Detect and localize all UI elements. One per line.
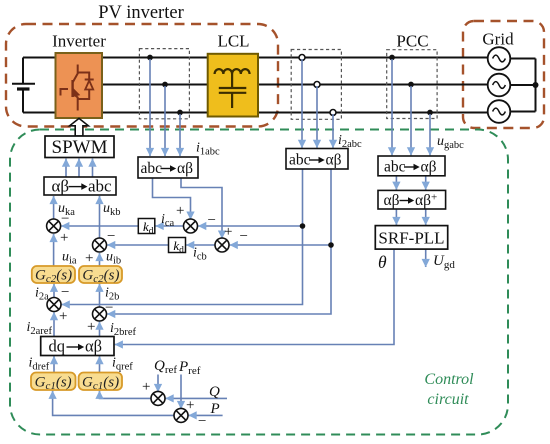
svg-text:uia: uia <box>62 250 77 267</box>
svg-text:θ: θ <box>378 252 387 272</box>
svg-text:+: + <box>186 398 194 414</box>
svg-text:icb: icb <box>193 246 207 263</box>
tap dot c3 <box>427 110 433 116</box>
svg-text:uib: uib <box>106 250 121 267</box>
block: abc to alphabeta (2) <box>286 149 348 170</box>
block: SPWM <box>45 136 114 158</box>
block: kd2 <box>169 238 186 256</box>
wire: alphabeta-abc to SPWM (3 arrows) <box>65 159 67 177</box>
svg-text:αβ: αβ <box>421 158 437 175</box>
wire: Qref into sum E <box>157 375 159 393</box>
wire: theta from SRF-PLL to dq-ab <box>115 249 394 345</box>
svg-text:i1abc: i1abc <box>196 141 220 158</box>
block: Gc1(s) d-axis <box>31 373 76 393</box>
Control circuit enclosure (green dashed rounded box) <box>10 130 508 435</box>
svg-text:Pref: Pref <box>178 359 201 377</box>
AC source G1 <box>488 47 511 70</box>
summing junction F (P) <box>174 408 188 422</box>
svg-text:Control: Control <box>424 371 474 388</box>
svg-text:i2a: i2a <box>35 286 49 303</box>
svg-text:αβ: αβ <box>85 337 102 356</box>
svg-text:ukb: ukb <box>103 201 121 218</box>
svg-text:abc: abc <box>384 158 406 175</box>
wire: i2b error into Gc2-2 <box>99 284 101 307</box>
svg-text:idref: idref <box>29 356 50 373</box>
tap dot b3 <box>408 82 414 88</box>
svg-text:αβ: αβ <box>384 192 400 209</box>
wire: ugabc measurement drops <box>391 59 393 155</box>
svg-text:SRF-PLL: SRF-PLL <box>378 228 444 247</box>
IGBT Q1 with antiparallel diode <box>61 65 94 111</box>
svg-text:abc: abc <box>141 160 163 177</box>
svg-text:abc: abc <box>289 151 311 168</box>
svg-text:αβ: αβ <box>177 160 193 177</box>
tap dot a3 <box>389 55 395 61</box>
phase wire C <box>102 112 489 114</box>
block: abc to alphabeta (1) <box>138 157 198 178</box>
svg-text:Qref: Qref <box>154 358 177 376</box>
block: kd1 <box>138 219 155 237</box>
hollow gate-drive arrow SPWM to inverter <box>70 118 89 136</box>
wire: Pref into sum F <box>180 375 182 410</box>
svg-text:+: + <box>59 308 67 324</box>
svg-text:+: + <box>176 203 184 219</box>
wire: ukb into alphabeta-abc <box>99 196 101 238</box>
svg-text:circuit: circuit <box>427 391 469 408</box>
wire: i1alpha from abc-ab1 into sum1 <box>153 178 191 220</box>
wire: i2a error into Gc2-1 <box>53 284 55 298</box>
tap circle a2 <box>299 55 305 61</box>
wire: sum1 to kd1 <box>156 225 184 227</box>
svg-text:+: + <box>85 251 93 267</box>
wire: i2aref into sum C <box>53 312 55 336</box>
wire: sum F output to Gc1-1 <box>53 391 174 416</box>
svg-text:abc: abc <box>88 176 112 195</box>
wire: idref into dq-ab <box>53 356 55 372</box>
svg-text:+: + <box>60 230 68 246</box>
svg-text:ugabc: ugabc <box>437 134 464 151</box>
wire: abc-ab3 to ab-ab+ (2 arrows) <box>395 176 397 190</box>
block: alphabeta to abc <box>44 176 116 195</box>
junction dot i2alpha <box>300 223 306 229</box>
summing junction D (i2b) <box>93 307 107 321</box>
wire: ab-ab+ to SRF-PLL (2 arrows) <box>395 209 397 225</box>
tap circle c2 <box>330 110 336 116</box>
svg-text:i2abc: i2abc <box>338 133 362 150</box>
sensor window S3 (PCC voltage taps) <box>387 50 437 119</box>
wire: kd2 to sum B <box>107 244 168 246</box>
svg-text:Q: Q <box>209 384 220 400</box>
sensor window S1 (inverter-side current taps) <box>139 49 189 119</box>
wire: P input into sum F <box>189 414 223 416</box>
block: Gc2(s) b-axis <box>79 266 122 285</box>
AC source G2 <box>488 74 511 97</box>
svg-text:LCL: LCL <box>217 32 249 51</box>
inverter power module box <box>56 53 103 118</box>
svg-text:αβ: αβ <box>326 151 342 168</box>
PV inverter enclosure (red dashed rounded box) <box>6 24 278 127</box>
sensor window S2 (grid-side current taps) <box>291 50 341 120</box>
junction dot grid bus <box>533 82 539 88</box>
svg-text:Ugd: Ugd <box>433 253 455 271</box>
svg-text:Grid: Grid <box>482 30 514 49</box>
svg-text:uka: uka <box>58 201 75 218</box>
sign labels <box>59 203 248 430</box>
wire: i2bref into sum D <box>99 322 101 337</box>
tap circle b2 <box>314 82 320 88</box>
svg-text:αβ: αβ <box>52 176 70 195</box>
wire: uia from Gc2-1 into sum A <box>53 234 55 266</box>
svg-text:i2b: i2b <box>105 286 119 303</box>
wire: i2alpha long feedback into sum C <box>62 169 303 305</box>
summing junction E (Q) <box>151 391 165 405</box>
signal labels <box>27 133 465 417</box>
wire: uib from Gc2-2 into sum B <box>99 253 101 266</box>
battery (DC source) <box>12 83 35 85</box>
svg-text:PCC: PCC <box>396 32 428 51</box>
summing junction C (i2a) <box>47 298 61 312</box>
wire: Q input into sum E <box>166 397 227 399</box>
svg-text:i2aref: i2aref <box>27 320 53 337</box>
wire: i2abc measurement drops <box>301 59 303 148</box>
wire: uka into alphabeta-abc <box>53 196 55 219</box>
tap dot b1 <box>162 82 168 88</box>
wire: sum2 to kd2 <box>186 244 215 246</box>
summing junction B (ukb) <box>93 238 107 252</box>
svg-text:+: + <box>87 319 95 335</box>
svg-text:+: + <box>142 379 150 395</box>
svg-text:−: − <box>61 285 69 301</box>
wire: i2beta feedback into sum2 <box>230 244 331 246</box>
wire: i1beta from abc-ab1 into sum2 <box>181 178 222 239</box>
svg-text:dq: dq <box>49 337 66 356</box>
junction dot i2beta <box>328 242 334 248</box>
wire: i2alpha feedback into sum1 <box>198 225 302 227</box>
svg-text:P: P <box>210 401 220 417</box>
phase wire A <box>102 57 489 59</box>
AC source G3 <box>488 100 511 123</box>
summing junction 2 (icb) <box>215 238 229 252</box>
svg-text:i2bref: i2bref <box>110 321 137 338</box>
svg-text:+: + <box>224 224 232 240</box>
tap dot a1 <box>147 55 153 61</box>
svg-text:−: − <box>107 229 115 245</box>
svg-text:−: − <box>198 414 206 430</box>
block: abc to alphabeta (3) <box>378 156 445 176</box>
LCL inductor symbol <box>215 69 250 74</box>
wire: kd1 to sum A <box>61 225 138 227</box>
tap dot c1 <box>177 110 183 116</box>
summing junction A (uka) <box>47 219 61 233</box>
LCL filter block <box>208 54 258 117</box>
svg-text:PV inverter: PV inverter <box>98 3 183 23</box>
svg-text:−: − <box>208 213 216 229</box>
block: Gc1(s) q-axis <box>79 373 122 393</box>
wire: iqref into dq-ab <box>99 356 101 372</box>
block: dq to alphabeta <box>41 337 114 356</box>
wire: i1abc measurement drops <box>149 59 151 156</box>
wire: i2beta long feedback into sum D <box>107 169 331 314</box>
LCL capacitor symbol <box>219 74 247 108</box>
block: SRF-PLL <box>375 226 447 250</box>
svg-text:iqref: iqref <box>112 356 133 373</box>
svg-text:SPWM: SPWM <box>52 137 108 158</box>
wire: sum E output to Gc1-2 <box>100 391 151 399</box>
phase wire B <box>102 84 489 86</box>
block: alphabeta to alphabeta+ <box>378 190 446 209</box>
wire: Ugd output <box>425 249 427 267</box>
Grid enclosure (red dashed rounded box) <box>463 21 544 128</box>
svg-text:ica: ica <box>161 212 175 229</box>
DC bus wires <box>23 58 56 113</box>
summing junction 1 (ica) <box>184 219 198 233</box>
svg-text:Inverter: Inverter <box>52 32 106 51</box>
block: Gc2(s) a-axis <box>32 266 75 285</box>
svg-text:−: − <box>240 228 248 244</box>
grid bus wire <box>510 59 536 112</box>
